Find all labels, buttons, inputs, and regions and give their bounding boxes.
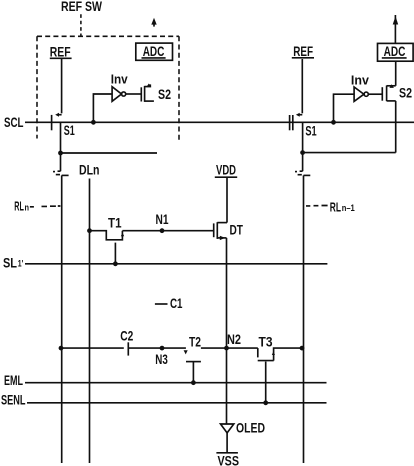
wire REF left vertical (61, 59, 63, 113)
wire DLn vertical (data line) (89, 179, 91, 464)
svg-text:SCL: SCL (4, 114, 24, 130)
svg-text:S2: S2 (399, 84, 412, 100)
wire storage row middle segment (128, 347, 186, 349)
svg-text:DT: DT (230, 221, 244, 237)
junction T3 gate / SENL (263, 400, 268, 405)
transistor S1 (left) channel bar (51, 115, 53, 130)
svg-text:C1: C1 (170, 295, 183, 311)
transistor T3 (258, 348, 302, 403)
transistor S1 (left) gate arrow (55, 113, 61, 117)
junction SCL / inverter input (left) (91, 120, 96, 125)
junction SCL / inverter input (right) (331, 120, 336, 125)
svg-text:T3: T3 (259, 333, 273, 349)
junction T1 gate / SL (113, 261, 118, 266)
svg-text:REF: REF (293, 43, 313, 59)
label VDD (215, 162, 237, 178)
inverter U2 (right) (354, 87, 368, 101)
dashed box REF SW (open bottom) (37, 36, 179, 140)
svg-text:ADC: ADC (143, 43, 165, 59)
transistor RLn-1 switch (right) (295, 153, 310, 176)
box ADC (right) (378, 43, 414, 61)
wire SL scan line horizontal (25, 263, 327, 265)
node N3 (155, 346, 168, 367)
wire EML horizontal (25, 382, 327, 384)
junction T2 gate / EML (191, 380, 196, 385)
svg-text:SL: SL (3, 255, 17, 271)
inverter U1 (left) (112, 87, 126, 102)
svg-text:S1: S1 (305, 122, 316, 138)
transistor S1 (right) gate arrow (296, 113, 302, 117)
wire REF right vertical (301, 59, 303, 113)
wire OLED cathode to VSS (226, 433, 228, 452)
node N2 (224, 331, 241, 351)
wire storage row left segment (61, 347, 124, 349)
transistor T2 (184, 350, 201, 383)
svg-text:T1: T1 (108, 215, 122, 231)
svg-text:REF SW: REF SW (61, 0, 103, 14)
wire inverter input from SCL (right) (334, 94, 355, 122)
wire REF feed horizontal (left) (61, 152, 158, 154)
label RLn (14, 199, 29, 214)
label REF (right) (292, 43, 314, 59)
svg-text:OLED: OLED (236, 420, 265, 436)
svg-text:RL: RL (14, 199, 24, 214)
svg-text:DLn: DLn (79, 162, 100, 178)
svg-text:N2: N2 (227, 331, 241, 347)
wire SENL horizontal (27, 402, 327, 404)
svg-text:Inv: Inv (351, 72, 370, 87)
svg-text:C2: C2 (120, 328, 133, 344)
wire ADC output with arrow up (right) (393, 15, 399, 43)
svg-text:N3: N3 (155, 351, 168, 367)
svg-text:EML: EML (4, 372, 23, 388)
svg-text:REF: REF (50, 44, 71, 60)
wire inverter output to S2 gate (left) (126, 93, 142, 95)
wire RLn-1 vertical (right read line) (303, 175, 305, 463)
svg-text:SENL: SENL (1, 391, 26, 407)
wire inverter output to S2 gate (right) (368, 93, 382, 95)
capacitor C2 (120, 328, 133, 356)
svg-text:S1: S1 (64, 122, 75, 138)
wire storage row right segment (201, 347, 258, 349)
node N1 (156, 211, 169, 233)
svg-text:N1: N1 (156, 211, 169, 227)
label C1 (155, 295, 183, 311)
transistor S2 (left) (141, 84, 154, 102)
svg-text:ADC: ADC (384, 43, 406, 59)
transistor S1 (right) channel bars (290, 115, 293, 130)
wire REF feed horizontal (right) (303, 152, 396, 154)
junction RLn line / storage row (59, 346, 64, 351)
wire N2 to OLED anode (226, 348, 228, 424)
wire S2 drain to ADC (right) (395, 61, 397, 86)
wire DT source vertical to N2 (226, 238, 228, 348)
svg-text:n–1: n–1 (342, 203, 355, 213)
transistor T1 (90, 231, 125, 264)
label REF (left) (50, 44, 72, 60)
junction REF feed (right) (300, 150, 305, 155)
junction DLn / T1 (87, 228, 92, 233)
svg-text:RL: RL (330, 200, 341, 215)
svg-text:Inv: Inv (111, 71, 129, 86)
wire S1 right drop to REF feed (302, 122, 304, 152)
svg-text:VDD: VDD (216, 162, 236, 178)
wire inverter input from SCL (left) (93, 94, 112, 122)
transistor RLn switch (left) (53, 153, 69, 175)
svg-text:S2: S2 (158, 86, 171, 102)
svg-text:VSS: VSS (218, 453, 240, 466)
leader line from REF SW label to dashed box (80, 14, 82, 36)
svg-text:T2: T2 (189, 333, 201, 349)
leader dashes RLn-1 (306, 205, 328, 207)
leader dashes RLn (30, 205, 61, 208)
svg-text:n: n (25, 202, 30, 212)
wire RLn vertical (left read line) (61, 175, 63, 463)
svg-text:1': 1' (18, 259, 24, 269)
arrow up (left section output) (151, 18, 156, 27)
transistor S2 (right) (382, 84, 395, 101)
wire S2 source down (right) (395, 101, 397, 153)
label RLn-1 (330, 200, 355, 215)
label SL1' (3, 255, 23, 271)
power VSS (216, 453, 239, 466)
transistor DT (214, 222, 227, 240)
diode OLED (221, 420, 266, 436)
wire N1 row (T1 to DT gate) (122, 230, 213, 232)
wire S1 left drop to REF feed (60, 122, 62, 153)
junction storage row / RLn-1 line (300, 346, 305, 351)
wire VDD vertical (226, 178, 228, 223)
wire SCL horizontal (25, 121, 414, 123)
box ADC (left) (136, 43, 173, 60)
junction REF feed (left) (58, 151, 63, 156)
